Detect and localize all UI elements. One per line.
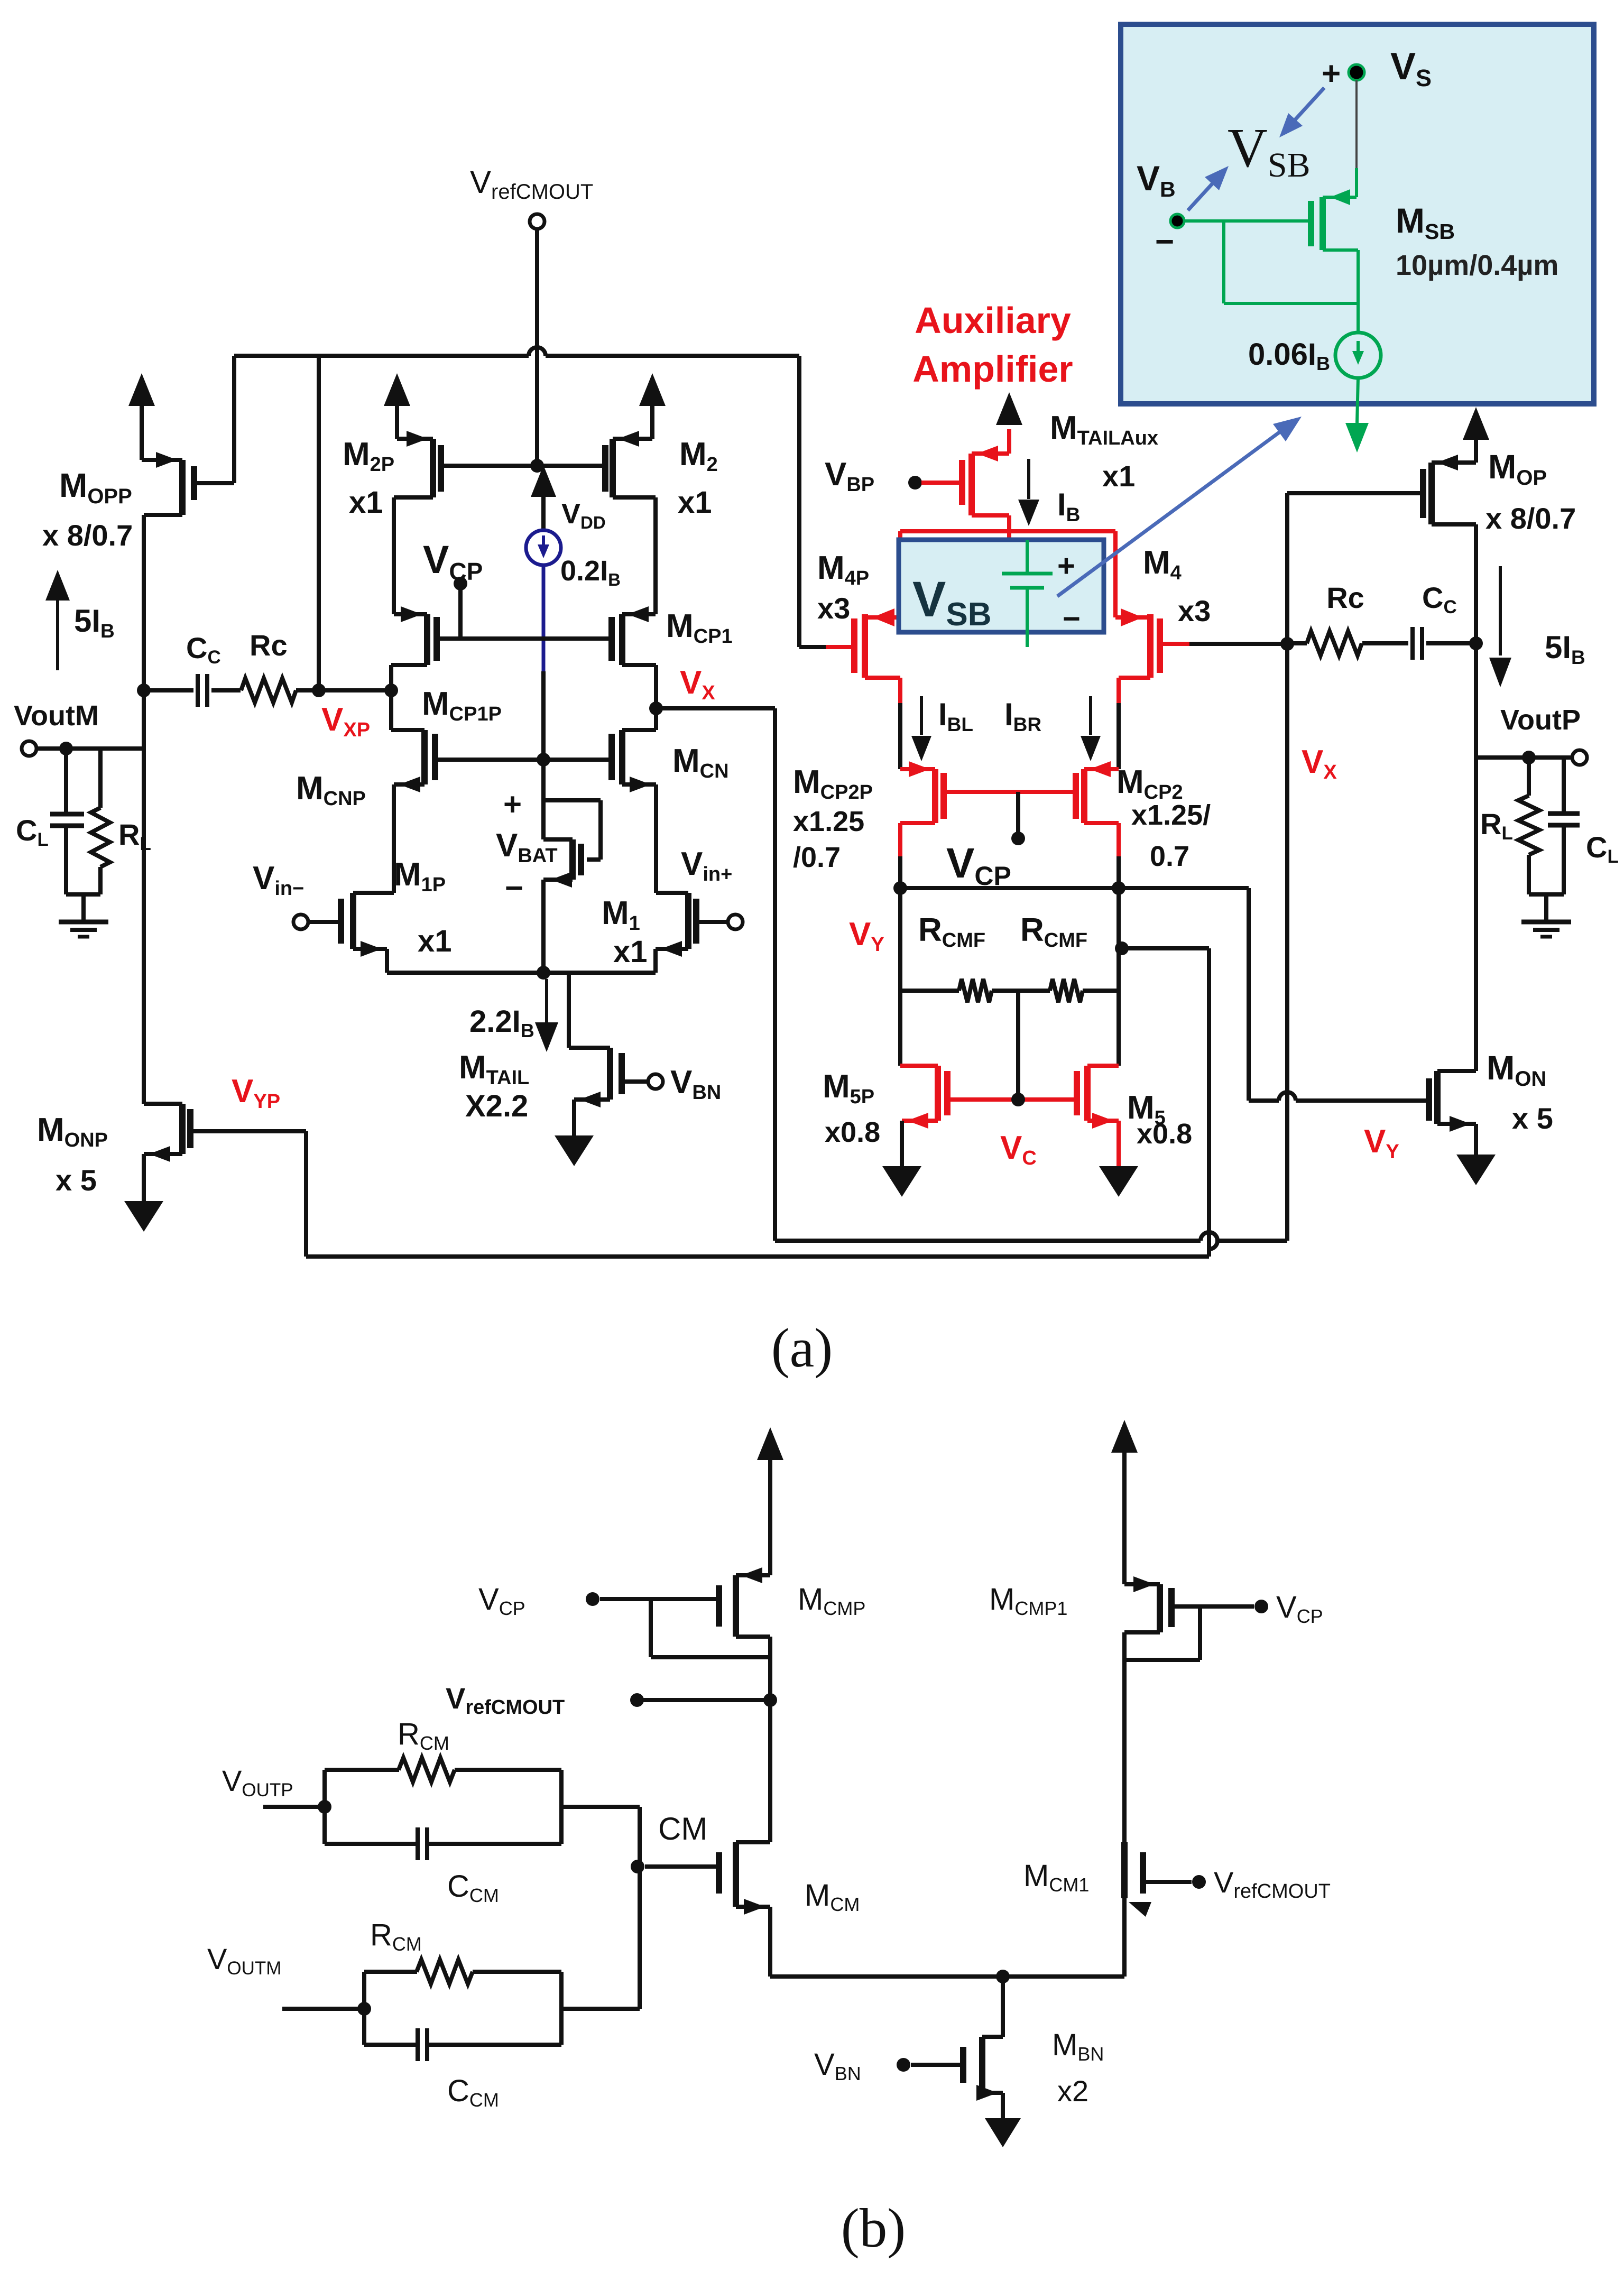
capacitor CC right [1410,627,1415,660]
nmos MCN [654,708,658,730]
node M2P/M2 gate junction [530,459,544,473]
svg-text:x1.25/: x1.25/ [1131,799,1211,831]
wire MCNP/MCN gate rail [435,758,612,762]
pmos M2P [430,439,436,497]
wire VoutM column [142,515,146,1104]
node VS terminal [1349,64,1364,80]
pmos MSB [1319,197,1326,250]
svg-text:/0.7: /0.7 [793,842,841,873]
wire M2P/M2 gate rail [441,464,605,468]
resistor RL left [98,749,103,808]
svg-text:x1.25: x1.25 [793,806,864,837]
node cascode bias junction [537,753,550,767]
svg-text:x2: x2 [1057,2074,1088,2108]
box bulk-bias inset [1121,24,1594,404]
node VrefCMOUT terminal [530,214,545,229]
wire VC stem [1016,991,1020,1100]
pmos M5 [1116,991,1121,1066]
nmos MBN [979,2037,985,2093]
ground MONP [124,1201,163,1232]
svg-text:x 8/0.7: x 8/0.7 [1485,502,1576,535]
wire tail rail part b [770,1974,1124,1979]
wire VXP rail [319,688,391,692]
wire VX bottom run [775,1239,1201,1243]
node tail junction [537,966,550,980]
svg-text:Rc: Rc [250,629,288,662]
wire VXP riser to top bus [317,356,321,690]
current annotation 2.2IB [545,979,548,1023]
nmos M1P [350,893,356,949]
resistor Rc right [1287,641,1307,645]
svg-text:x3: x3 [817,592,850,625]
capacitor CC left [150,688,193,692]
capacitor CL left [64,753,68,814]
svg-text:x1: x1 [678,485,712,520]
wire 0.06IB output [1357,378,1358,423]
arrow VSB box to inset [1057,424,1290,596]
svg-text:x1: x1 [613,935,648,969]
svg-text:VoutM: VoutM [14,700,99,732]
node RCMF right tap [1116,888,1121,991]
wire MCP2P/MCP2 gate rail [944,790,1076,794]
pmos MCMP1 [1111,1420,1138,1453]
svg-text:0.7: 0.7 [1150,841,1189,872]
node VCP terminal upper [454,577,467,590]
wire VYP net [190,1129,306,1133]
svg-text:x 5: x 5 [1512,1102,1553,1135]
svg-text:x1: x1 [349,485,383,520]
wire load bottom right [1529,892,1564,897]
wire MCM1 drain to MCMP1 [1122,1632,1127,1842]
svg-text:x3: x3 [1178,594,1211,627]
arrow inset VSB upper [1286,88,1324,130]
current annotation 5IB right [1499,566,1502,655]
svg-text:VoutP: VoutP [1500,704,1581,736]
node tail part b [996,1970,1010,1983]
node VCP terminal aux [1016,792,1020,832]
nmos MCM1 [1121,1842,1128,1898]
wire VY rail [900,886,1119,890]
svg-text:+: + [503,787,522,822]
nmos MCM [733,1842,739,1907]
wire aux tail split to M4P/M4 sources [900,529,1115,533]
svg-text:x1: x1 [1102,459,1135,493]
nmos MTAIL [567,973,571,1048]
wire VS to MSB source [1355,80,1358,168]
current source 0.06IB [1335,333,1381,378]
arrow inset VSB lower [1188,173,1222,210]
svg-text:10µm/0.4µm: 10µm/0.4µm [1396,250,1558,281]
wire VX to right column [656,706,775,710]
wire left column to RCMF [898,888,902,991]
resistor RL right [1527,762,1531,796]
ground M5P [882,1166,921,1197]
pmos M4P [865,615,900,620]
svg-text:x0.8: x0.8 [825,1116,880,1148]
svg-text:x 5: x 5 [56,1163,97,1197]
wire MCP1P/MCP1 gate rail [437,636,612,641]
wire VX right riser to MOP gate [1285,493,1289,1241]
nmos MONP [179,1104,186,1154]
wire load bottom left [66,892,100,897]
node MCP2 drain junction [1116,856,1121,888]
ground M5 [1099,1166,1138,1197]
ground MON [1456,1155,1496,1185]
current source 0.2IB [531,465,556,497]
wire MCMP drain to MCM [768,1700,772,1842]
ground load right [1521,920,1571,925]
wire M4 drain to MCP2 [1116,703,1121,769]
pmos MOP [1428,463,1435,524]
svg-text:x1: x1 [418,924,452,958]
node VX [649,701,663,715]
node CM [631,1860,644,1873]
pmos M5P [898,991,902,1066]
ground MBN [985,2118,1021,2147]
nmos MCNP [389,690,393,730]
wire MSB drain [1323,248,1358,252]
current annotation IB [1027,459,1030,499]
node VrefCMOUT part b [630,1693,644,1707]
transistor VBAT battery device [541,760,546,839]
capacitor CL right [1562,758,1566,813]
node VC [1011,1093,1025,1106]
pmos M4 [1115,615,1150,620]
node M4 gate tap on VX riser [1280,637,1294,651]
svg-text:Amplifier: Amplifier [912,348,1073,390]
svg-text:Rc: Rc [1326,581,1364,614]
node VB terminal [1170,214,1184,228]
node VY [898,856,902,888]
svg-text:X2.2: X2.2 [465,1089,528,1123]
svg-text:(a): (a) [771,1317,833,1379]
svg-text:−: − [505,870,523,906]
ground MTAIL [555,1135,594,1166]
wire bias line down to cascode gate rail [541,671,546,756]
pmos MCMP [757,1427,783,1460]
node CC tap right [1469,636,1483,650]
svg-text:−: − [1155,224,1174,260]
node CC tap left [137,684,151,697]
pmos MCP1P [424,614,430,665]
current annotation IBL [920,696,923,735]
box VSB floating battery [899,540,1104,632]
svg-text:(b): (b) [841,2197,906,2259]
wire VY to MON gate [1119,886,1249,890]
node VXP [384,684,398,697]
current annotation IBR [1089,696,1092,735]
wire M4P drain to MCP2P [898,703,902,769]
svg-text:+: + [1322,56,1341,92]
resistor RCMF right [1050,979,1083,1002]
pmos M2 [610,439,616,497]
resistor RCMF left [900,989,959,993]
pmos MOPP [179,460,186,515]
ground load left [59,920,108,925]
pmos MCP2 [1081,769,1087,823]
wire VoutP column [1474,524,1478,1071]
resistor Rc left [211,688,241,692]
svg-text:Auxiliary: Auxiliary [915,300,1071,341]
svg-text:x0.8: x0.8 [1137,1118,1192,1150]
nmos MON [1434,1071,1441,1124]
svg-text:CM: CM [658,1811,707,1846]
pmos MCP1 [619,614,625,665]
wire top bus VXP net (M_OPP gate to M4P gate) [232,356,236,483]
pmos MCP2P [932,769,938,823]
current annotation 5IB left [45,570,70,601]
wire VrefCMOUT down to M2P/M2 gates [535,229,539,466]
svg-text:x 8/0.7: x 8/0.7 [42,519,133,552]
svg-text:+: + [1057,549,1075,583]
wire tail rail [387,971,656,975]
wire MSB bulk tie [1222,221,1225,303]
svg-text:−: − [1063,602,1081,636]
nmos M1 [685,893,691,949]
